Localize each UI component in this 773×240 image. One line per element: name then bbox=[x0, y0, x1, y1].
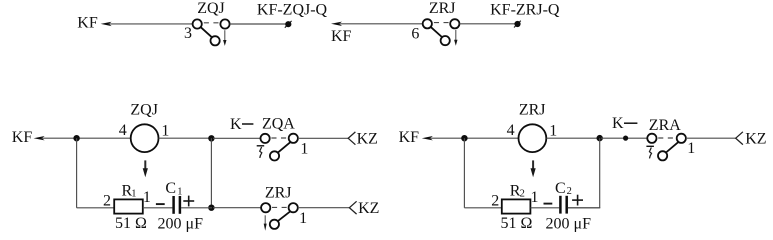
terminal KZ bbox=[348, 131, 378, 148]
label K- bbox=[612, 115, 637, 132]
movable arm bbox=[278, 212, 290, 221]
coil circle bbox=[519, 124, 547, 152]
svg-text:KZ: KZ bbox=[357, 131, 378, 148]
svg-text:ZQJ: ZQJ bbox=[130, 102, 158, 119]
wire coil to node bbox=[546, 137, 601, 139]
resistor body bbox=[114, 199, 143, 213]
wire capacitor to corner bbox=[568, 207, 601, 209]
capacitor C1 bbox=[156, 180, 203, 232]
terminal KZ bbox=[349, 200, 379, 217]
svg-text:1: 1 bbox=[531, 189, 539, 206]
svg-text:KF-ZRJ-Q: KF-ZRJ-Q bbox=[490, 1, 560, 18]
junction node bbox=[461, 135, 467, 141]
svg-text:ZRJ: ZRJ bbox=[519, 102, 546, 119]
svg-text:2: 2 bbox=[491, 193, 499, 210]
wire bottom rail bbox=[77, 207, 114, 209]
svg-text:ZRA: ZRA bbox=[649, 117, 681, 134]
capacitor plates bbox=[172, 196, 175, 214]
node (small) bbox=[623, 136, 628, 141]
svg-text:200 μF: 200 μF bbox=[546, 215, 592, 232]
resistor body bbox=[502, 199, 531, 213]
node KF-ZQJ-Q bbox=[285, 21, 292, 28]
wire (arrow to KF) bbox=[101, 22, 193, 26]
label K- bbox=[230, 116, 253, 133]
contact terminals bbox=[261, 134, 270, 143]
wire (arrow to KF) bbox=[422, 136, 519, 140]
relay coil ZQJ bbox=[119, 102, 170, 152]
svg-text:4: 4 bbox=[507, 122, 515, 139]
wire bbox=[230, 23, 286, 25]
svg-text:K: K bbox=[230, 116, 242, 133]
svg-text:KF: KF bbox=[77, 15, 98, 32]
wire resistor to capacitor bbox=[143, 207, 173, 209]
svg-text:C: C bbox=[165, 180, 176, 197]
contact terminals bbox=[261, 203, 270, 212]
wire (arrow to KF) bbox=[331, 22, 423, 26]
slow-release symbol bbox=[646, 146, 654, 158]
plus polarity mark bbox=[572, 199, 583, 201]
svg-text:1: 1 bbox=[299, 210, 307, 227]
svg-text:2: 2 bbox=[567, 186, 572, 197]
junction node bbox=[597, 135, 603, 141]
svg-text:KF: KF bbox=[12, 129, 33, 146]
dashed closed position bbox=[434, 22, 449, 24]
svg-text:KF: KF bbox=[331, 28, 352, 45]
svg-text:1: 1 bbox=[131, 189, 136, 200]
wire to KZ bbox=[298, 137, 349, 139]
arrow (release direction) bbox=[223, 30, 226, 46]
svg-text:1: 1 bbox=[549, 122, 557, 139]
svg-text:K: K bbox=[612, 115, 624, 132]
resistor R1 bbox=[103, 182, 151, 232]
svg-text:ZRJ: ZRJ bbox=[265, 185, 292, 202]
relay coil ZRJ bbox=[507, 102, 558, 152]
svg-text:ZRJ: ZRJ bbox=[429, 0, 456, 17]
wire riser left bbox=[76, 138, 78, 208]
wire to contact ZRA bbox=[601, 137, 648, 139]
svg-text:51 Ω: 51 Ω bbox=[115, 215, 147, 232]
svg-text:KZ: KZ bbox=[745, 131, 766, 148]
dashed closed position bbox=[204, 22, 219, 24]
relay contact ZRJ pin 6 bbox=[411, 0, 459, 45]
svg-text:3: 3 bbox=[184, 25, 192, 42]
wire to KZ bbox=[686, 137, 736, 139]
junction node bbox=[208, 205, 214, 211]
arrow (release direction) bbox=[264, 215, 267, 231]
wire riser right bbox=[599, 138, 601, 208]
svg-text:1: 1 bbox=[161, 122, 169, 139]
movable arm bbox=[666, 142, 678, 152]
terminal KZ bbox=[736, 131, 767, 148]
dashed closed position bbox=[658, 137, 674, 139]
svg-text:200 μF: 200 μF bbox=[158, 215, 204, 232]
relay contact ZQJ pin 3 bbox=[184, 0, 230, 45]
wire riser middle bbox=[210, 138, 212, 207]
svg-text:2: 2 bbox=[520, 189, 525, 200]
wire to contact ZRJ bbox=[213, 207, 262, 209]
contact terminals bbox=[193, 19, 202, 28]
svg-text:1: 1 bbox=[177, 186, 182, 197]
svg-text:1: 1 bbox=[300, 141, 308, 158]
coil circle bbox=[131, 124, 159, 152]
wire rail to riser bbox=[568, 207, 600, 209]
relay contact ZQA pin 1 bbox=[261, 115, 309, 160]
arrow (release direction) bbox=[454, 30, 457, 46]
junction node bbox=[208, 135, 214, 141]
capacitor C2 bbox=[544, 180, 592, 232]
dashed closed position bbox=[272, 206, 287, 208]
contact terminals bbox=[423, 19, 432, 28]
minus polarity mark bbox=[156, 203, 165, 205]
svg-text:ZQA: ZQA bbox=[262, 115, 295, 132]
resistor R2 bbox=[491, 182, 538, 232]
svg-text:6: 6 bbox=[411, 25, 419, 42]
junction node bbox=[73, 135, 79, 141]
relay contact ZRA pin 1 bbox=[647, 117, 695, 161]
arrow (coil release) bbox=[143, 160, 148, 177]
node KF-ZRJ-Q bbox=[514, 21, 521, 28]
svg-text:ZQJ: ZQJ bbox=[197, 0, 225, 17]
svg-text:1: 1 bbox=[687, 140, 695, 157]
wire capacitor to node bbox=[181, 207, 212, 209]
slow-release symbol bbox=[257, 146, 265, 158]
svg-text:51 Ω: 51 Ω bbox=[501, 215, 533, 232]
wire to contact ZQA bbox=[213, 137, 261, 139]
wire resistor to capacitor bbox=[530, 207, 559, 209]
svg-text:1: 1 bbox=[143, 189, 151, 206]
svg-text:4: 4 bbox=[119, 122, 127, 139]
wire bottom rail bbox=[464, 207, 502, 209]
svg-text:KF-ZQJ-Q: KF-ZQJ-Q bbox=[257, 1, 328, 18]
movable arm bbox=[201, 27, 212, 37]
contact terminals bbox=[647, 134, 656, 143]
wire to KZ bbox=[298, 207, 350, 209]
plus polarity mark bbox=[183, 200, 194, 202]
svg-text:KZ: KZ bbox=[358, 200, 379, 217]
movable arm bbox=[431, 27, 442, 37]
dashed closed position bbox=[271, 137, 287, 139]
wire bbox=[460, 23, 515, 25]
svg-text:C: C bbox=[555, 180, 566, 197]
capacitor plates bbox=[559, 196, 562, 214]
svg-text:KF: KF bbox=[399, 129, 420, 146]
wire riser left bbox=[463, 138, 465, 208]
minus polarity mark bbox=[544, 203, 553, 205]
relay contact ZRJ pin 1 bbox=[261, 185, 307, 229]
wire coil to node bbox=[159, 137, 213, 139]
svg-text:2: 2 bbox=[103, 192, 111, 209]
movable arm bbox=[278, 142, 290, 152]
arrow (coil release) bbox=[531, 160, 536, 177]
wire (arrow to KF) bbox=[34, 136, 132, 140]
